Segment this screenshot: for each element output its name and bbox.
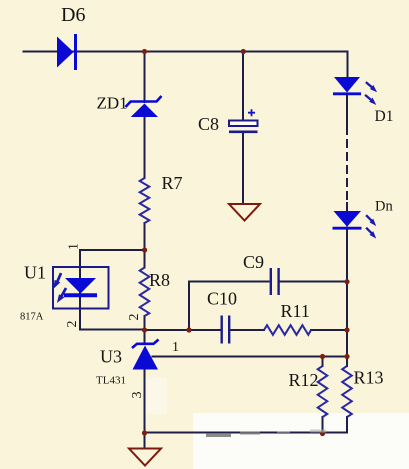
svg-text:2: 2 <box>127 314 142 321</box>
svg-text:R7: R7 <box>162 173 183 193</box>
svg-text:C8: C8 <box>198 114 219 134</box>
svg-text:U3: U3 <box>100 347 122 367</box>
svg-text:817A: 817A <box>20 312 44 323</box>
svg-text:D1: D1 <box>375 108 394 125</box>
svg-text:TL431: TL431 <box>96 375 126 387</box>
svg-text:U1: U1 <box>24 263 46 283</box>
svg-text:R13: R13 <box>354 368 384 388</box>
svg-text:C9: C9 <box>243 252 264 272</box>
svg-text:1: 1 <box>67 243 82 250</box>
svg-text:3: 3 <box>130 392 145 399</box>
svg-text:C10: C10 <box>207 289 237 309</box>
svg-text:R11: R11 <box>281 301 310 321</box>
svg-text:D6: D6 <box>61 4 85 26</box>
svg-text:1: 1 <box>172 340 179 355</box>
svg-text:Dn: Dn <box>375 199 393 215</box>
svg-text:R12: R12 <box>289 370 319 390</box>
svg-text:R8: R8 <box>149 270 170 290</box>
svg-text:ZD1: ZD1 <box>97 94 128 113</box>
svg-text:2: 2 <box>65 321 80 328</box>
